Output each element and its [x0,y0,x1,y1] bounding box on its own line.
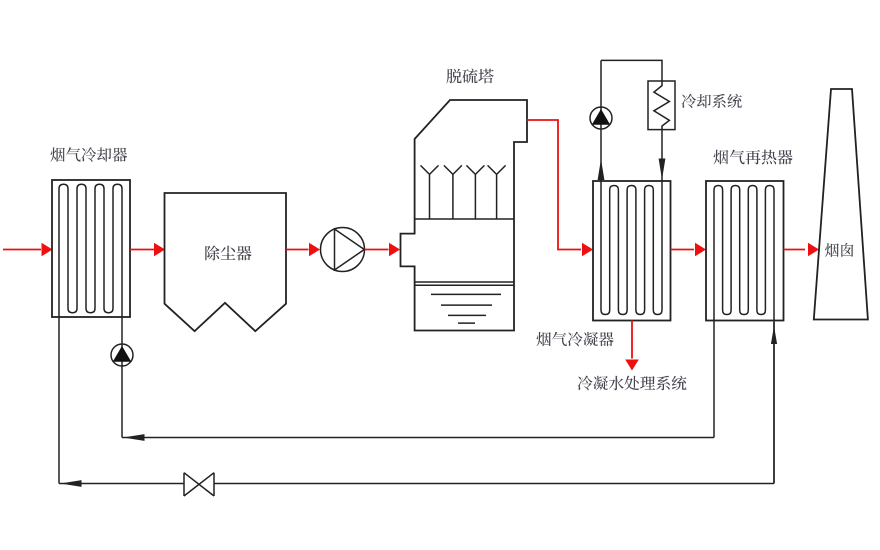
red arrowhead into tower inlet [389,243,400,257]
label 除尘器 [205,246,251,261]
wire: return line y=437.5 reheater to cooler pump [122,437,714,439]
chimney trapezoid [814,89,868,320]
wire: red condensate drain from condenser [631,321,633,359]
cooling system box [648,81,675,130]
sump water level lines [431,294,501,323]
spray nozzle 4 [488,165,506,219]
pump P2 filled triangle [592,109,610,125]
spray nozzle 3 [466,165,484,219]
wire: supply line y=483.5 cooler to reheater (left of valve) [59,483,185,485]
heat exchanger: flue gas cooler box [52,180,130,317]
up arrowhead into condenser (left leg) [598,159,605,180]
reheater coil (serpentine, both ends exit bottom) [714,186,774,484]
down arrowhead into condenser (right leg) [659,159,666,180]
spray nozzle 1 [421,165,439,219]
label 烟气冷凝器 [537,332,614,347]
label 冷凝水处理系统 [578,376,687,391]
wire: red line tower outlet to condenser [527,120,581,250]
dust collector polygon [165,193,287,331]
label 烟囱 [825,243,853,257]
red arrowhead into cooler [42,243,53,257]
wire: red line reheater to chimney [784,249,806,251]
spray nozzle 2 [444,165,462,219]
black arrowhead up into reheater [771,326,777,344]
label 脱硫塔 [447,69,494,84]
black arrowhead left at supply line corner [61,480,82,487]
label 冷却系统 [682,94,742,108]
wire: riser x=774 up into reheater [773,322,775,484]
heat exchanger: flue gas condenser box [593,181,671,321]
pump P1 circle [321,228,365,272]
heat exchanger: flue gas reheater box [706,181,784,321]
black arrowhead left on return line [124,434,145,441]
pump P2 circle [590,107,612,129]
wire: red line condenser to reheater [671,249,695,251]
tower spray header divider [415,218,514,220]
label 烟气再热器 [714,150,793,165]
red arrowhead into condenser [582,243,593,257]
wire: red line cooler to dust collector [130,249,154,251]
red arrowhead into pump [309,243,320,257]
tower lower divider (double line) [415,281,514,283]
red arrowhead into chimney [808,243,819,257]
cooler coil (serpentine, both ends exit bottom) [59,184,122,483]
wire: red line dust collector to pump [286,249,309,251]
desulfurization tower outline [401,100,528,331]
pump P1 triangle [335,229,365,270]
wire: flue gas inlet red line [3,249,41,251]
condenser coil (serpentine, both ends exit top) + cooling loop + zigzag [601,60,669,314]
wire: supply line y=483.5 right of valve [215,483,775,485]
label 烟气冷却器 [51,147,128,162]
valve (bowtie with crossing diagonals) [184,473,214,496]
red arrowhead into dust collector [154,243,165,257]
wire: red line pump to tower [365,249,389,251]
red arrowhead into reheater [695,243,706,257]
red arrowhead down to condensate treatment [625,360,639,371]
pump P3 circle on cooler return line [111,344,133,366]
pump P3 filled triangle [113,346,132,362]
